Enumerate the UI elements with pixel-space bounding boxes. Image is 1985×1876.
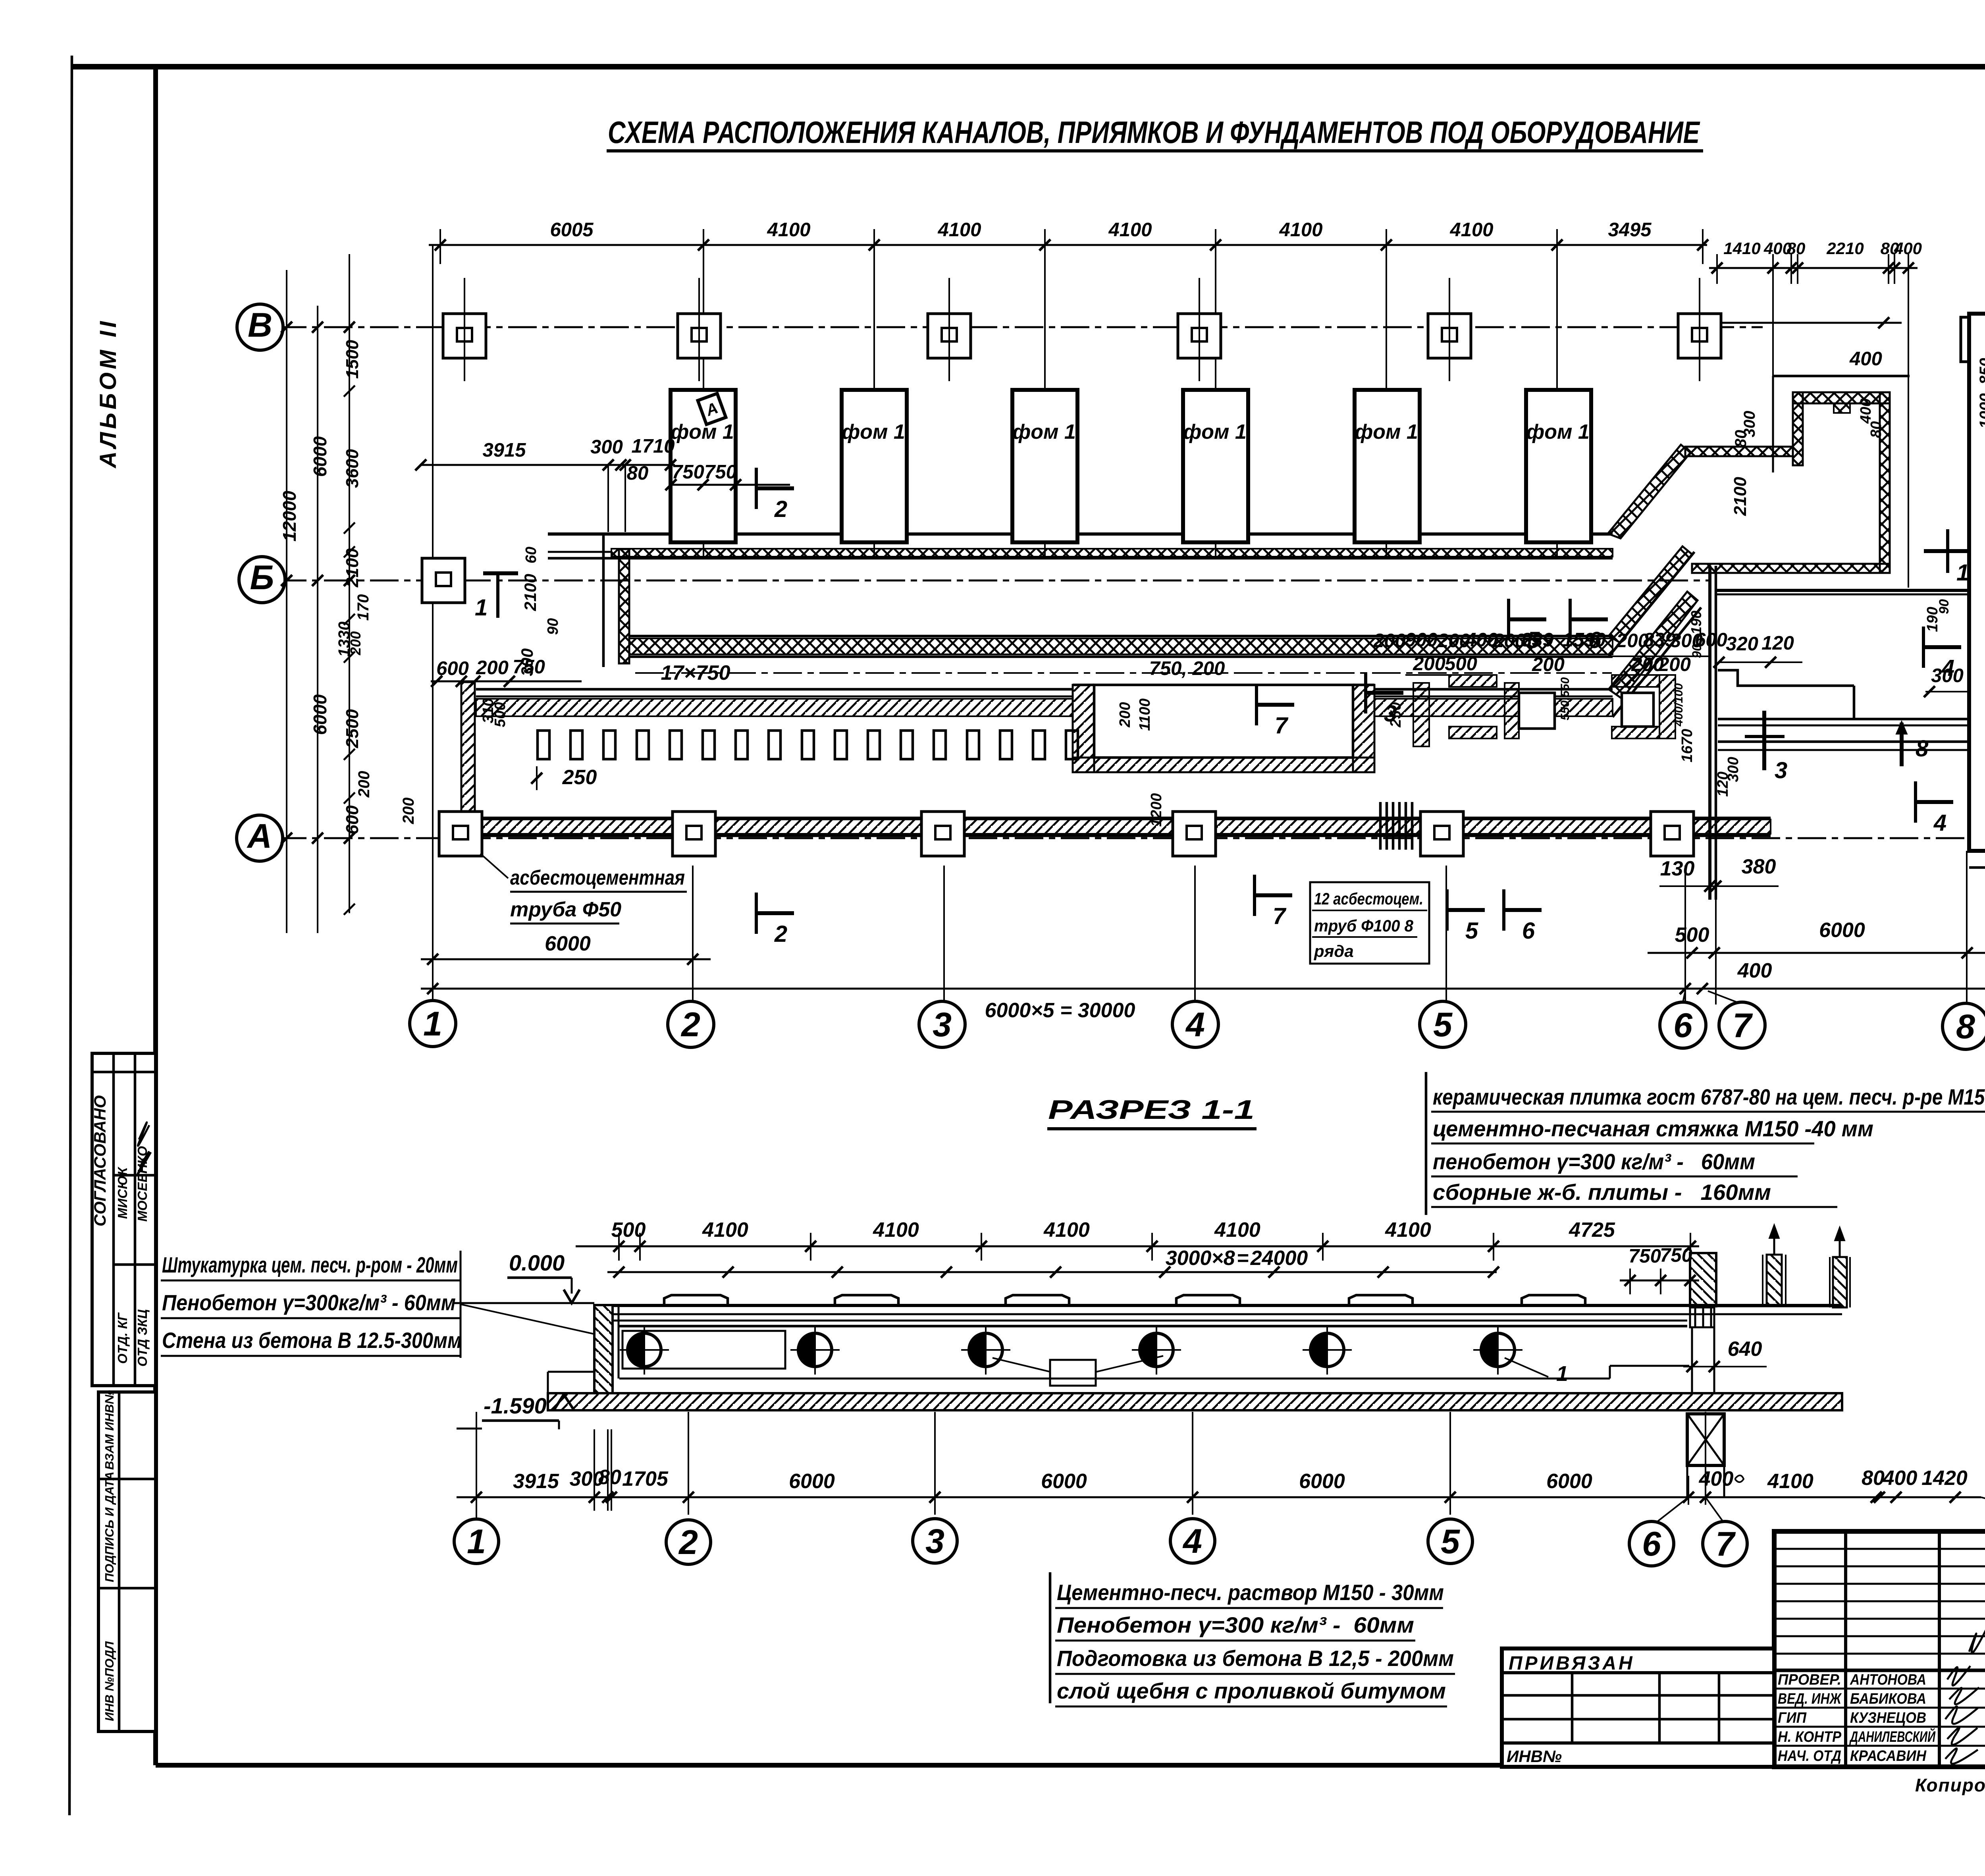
axis В circle: [237, 304, 283, 350]
svg-text:640: 640: [1728, 1338, 1762, 1361]
foundation block ФОМ1 #6: [1526, 390, 1591, 542]
right end column C: [1833, 1257, 1847, 1307]
section flag 7 top: [1257, 684, 1294, 738]
section flag 3 lower right: [1745, 711, 1787, 783]
section axis circle 2: [666, 1520, 711, 1564]
pipe 4: [1140, 1333, 1173, 1367]
pipe 3: [969, 1333, 1002, 1367]
foundation block ФОМ1 #1: [671, 390, 736, 542]
svg-text:Стена из бетона В 12.5-300мм: Стена из бетона В 12.5-300мм: [162, 1328, 462, 1353]
svg-text:6000×5 = 30000: 6000×5 = 30000: [985, 999, 1135, 1022]
column footing on axis В at x=2391: [928, 314, 971, 358]
section top dim row 2: [607, 1271, 1497, 1273]
svg-text:4100: 4100: [1385, 1219, 1431, 1242]
svg-text:4100: 4100: [873, 1219, 919, 1242]
svg-text:2: 2: [680, 1006, 700, 1044]
svg-text:ИНВ№: ИНВ№: [1507, 1747, 1562, 1766]
svg-text:4: 4: [1933, 810, 1946, 836]
chain dim row above pit (left group): [1378, 656, 1711, 657]
text асбестоцементная труба: [480, 854, 508, 878]
pit wall right: [1353, 685, 1374, 772]
verticals below column A: [1691, 1327, 1693, 1393]
svg-text:750: 750: [1660, 1245, 1692, 1266]
section interior bottom line: [619, 1378, 1610, 1380]
label 250 with tick: [536, 766, 538, 790]
svg-text:4: 4: [1185, 1006, 1205, 1044]
inner pit stepped outline: [1718, 670, 1854, 686]
svg-text:80: 80: [1787, 239, 1806, 258]
section flag 2 bottom: [756, 893, 794, 947]
svg-text:0.000: 0.000: [509, 1250, 565, 1275]
plan axis circle 8: [1943, 1003, 1985, 1049]
column footing top right corner: [1961, 317, 1985, 362]
svg-text:850: 850: [1977, 358, 1985, 385]
svg-text:Б: Б: [250, 559, 274, 597]
svg-text:СОГЛАСОВАНО: СОГЛАСОВАНО: [91, 1095, 109, 1226]
svg-text:5: 5: [1433, 1006, 1453, 1044]
right room outer wall: [1969, 314, 1985, 851]
svg-text:3915: 3915: [513, 1470, 559, 1493]
plan axis circle 6: [1660, 1002, 1706, 1048]
svg-text:-1.590: -1.590: [484, 1393, 547, 1418]
svg-text:асбестоцементная: асбестоцементная: [510, 866, 685, 889]
leader lines for circles 6 7: [1683, 991, 1685, 1002]
upper-right wall top band with notch: [1793, 392, 1890, 403]
leader bracket: [460, 1251, 462, 1358]
svg-text:фом 1: фом 1: [1012, 420, 1076, 443]
svg-text:200: 200: [1413, 653, 1445, 675]
svg-text:ПОДПИСЬ И ДАТА: ПОДПИСЬ И ДАТА: [102, 1471, 116, 1582]
svg-text:3: 3: [1775, 758, 1787, 783]
sheet outer edge left: [69, 56, 72, 1815]
svg-text:400: 400: [1894, 239, 1922, 258]
frame bottom: [156, 1763, 1985, 1768]
svg-text:1420: 1420: [1921, 1467, 1968, 1490]
svg-text:1410: 1410: [1723, 239, 1760, 258]
svg-text:839: 839: [1521, 629, 1554, 651]
svg-text:фом 1: фом 1: [671, 420, 734, 443]
svg-text:6000: 6000: [545, 932, 591, 955]
column footing on axis А at x=1748: [673, 812, 715, 856]
svg-text:750: 750: [704, 461, 737, 483]
svg-text:750, 200: 750, 200: [1149, 658, 1225, 679]
svg-text:750: 750: [1628, 1246, 1661, 1267]
svg-text:6: 6: [1673, 1006, 1693, 1045]
right room bottom extra line: [1969, 866, 1985, 869]
svg-text:ВЕД. ИНЖ: ВЕД. ИНЖ: [1778, 1691, 1842, 1707]
svg-text:750: 750: [672, 461, 704, 483]
axis Б dash-dot line: [278, 580, 1711, 582]
equipment pads on slab: [664, 1295, 728, 1305]
svg-text:8: 8: [1916, 736, 1929, 762]
axis А dash-dot line: [278, 837, 1969, 839]
svg-text:Пенобетон γ=300кг/м³ - 60мм: Пенобетон γ=300кг/м³ - 60мм: [162, 1290, 456, 1315]
left table blank rows: [1774, 1548, 1985, 1550]
west wall vertical (upper): [619, 549, 629, 663]
section bottom dim line: [457, 1496, 1981, 1498]
svg-text:ВЗАМ ИНВ№: ВЗАМ ИНВ№: [102, 1390, 116, 1470]
svg-text:3: 3: [933, 1006, 952, 1044]
plan axis circle 5: [1420, 1001, 1466, 1047]
channel north wall: [629, 635, 1613, 638]
dim tick x=2632: [1039, 239, 1050, 251]
left margin stamp ИНВ block: [98, 1390, 156, 1731]
svg-text:1590: 1590: [1562, 629, 1605, 651]
svg-text:750: 750: [513, 656, 545, 678]
svg-text:130: 130: [1660, 857, 1695, 880]
plan axis circle 3: [919, 1001, 965, 1047]
dim tick x=1109: [435, 239, 446, 251]
svg-text:200: 200: [400, 798, 417, 825]
lower-right room west wall: [1708, 566, 1711, 900]
section flags 5 6 top: [1509, 599, 1546, 653]
svg-text:4100: 4100: [937, 219, 981, 241]
svg-text:1: 1: [475, 595, 488, 621]
svg-text:200: 200: [1373, 630, 1406, 652]
left margin stamp СОГЛАСОВАНО: [91, 1053, 156, 1386]
svg-text:Штукатурка цем. песч. р-ром -: Штукатурка цем. песч. р-ром - 20мм: [162, 1252, 458, 1277]
footing on axis Б: [422, 558, 465, 603]
column footing on axis А at x=3632: [1420, 812, 1463, 856]
svg-text:2: 2: [678, 1523, 698, 1562]
svg-text:1000: 1000: [1977, 393, 1985, 429]
pit wall bottom: [1073, 758, 1374, 772]
svg-text:слой щебня с проливкой битумом: слой щебня с проливкой битумом: [1057, 1678, 1446, 1703]
plan axis circle 7: [1719, 1002, 1765, 1048]
section axis circle 6: [1629, 1521, 1674, 1566]
label 1 with leader: [1505, 1358, 1548, 1377]
svg-text:АНТОНОВА: АНТОНОВА: [1850, 1672, 1926, 1688]
svg-text:2: 2: [774, 496, 787, 522]
column footing on axis В at x=3021: [1178, 314, 1221, 358]
svg-text:фом 1: фом 1: [1183, 420, 1247, 443]
svg-text:ГИП: ГИП: [1778, 1710, 1807, 1726]
svg-text:200: 200: [347, 631, 364, 656]
pit walls (left): [1073, 685, 1094, 772]
axis А circle: [237, 815, 283, 861]
svg-text:Н. КОНТР: Н. КОНТР: [1778, 1729, 1842, 1745]
svg-text:2210: 2210: [1826, 239, 1864, 258]
svg-text:цементно-песчаная стяжка М150: цементно-песчаная стяжка М150 -40 мм: [1433, 1116, 1873, 1141]
dim line 3915/300/1710 row: [421, 464, 675, 466]
upper-right wall left band: [1793, 392, 1803, 465]
svg-text:80: 80: [598, 1466, 621, 1489]
svg-text:7: 7: [1715, 1525, 1736, 1563]
foundation block ФОМ1 #4: [1183, 390, 1248, 542]
step under left wall: [548, 1371, 594, 1373]
west wall vertical (lower): [461, 682, 475, 818]
dim tick x=3062: [1210, 239, 1221, 251]
right end hatched column A: [1690, 1253, 1716, 1306]
svg-text:120: 120: [1761, 632, 1794, 654]
svg-text:4725: 4725: [1569, 1219, 1615, 1242]
svg-text:200: 200: [476, 657, 509, 679]
plan bottom dim row 1 (y 2330): [421, 958, 711, 960]
right end column B: [1767, 1255, 1782, 1306]
section axis circle 5: [1428, 1519, 1472, 1564]
svg-text:300: 300: [1931, 665, 1964, 686]
svg-text:2100: 2100: [343, 548, 362, 588]
title block outer box: [1774, 1531, 1985, 1767]
svg-text:1670: 1670: [1679, 729, 1696, 763]
crossed box below: [1687, 1414, 1724, 1465]
svg-text:3000×8 = 24000: 3000×8 = 24000: [1166, 1247, 1308, 1270]
foundation strip: [548, 1393, 1842, 1410]
svg-text:2: 2: [774, 921, 787, 947]
svg-text:5: 5: [1441, 1523, 1460, 1561]
svg-text:4100: 4100: [1043, 1219, 1090, 1242]
frame left: [153, 67, 158, 1765]
svg-text:500: 500: [1445, 653, 1477, 675]
section axis circle 1: [454, 1519, 499, 1564]
left signature table columns: [1844, 1531, 1847, 1767]
svg-text:РАЗРЕЗ 1-1: РАЗРЕЗ 1-1: [1048, 1095, 1255, 1125]
dim tick x=1772: [698, 239, 709, 251]
svg-text:Цементно-песч. раствор М150 -: Цементно-песч. раствор М150 - 30мм: [1057, 1580, 1444, 1605]
svg-text:7: 7: [1275, 713, 1289, 738]
section flag 3 top: [1366, 672, 1403, 727]
svg-text:900: 900: [1405, 629, 1438, 651]
floor composition text block: [1425, 1072, 1428, 1215]
axis В dash-dot line: [278, 326, 1763, 328]
svg-text:1: 1: [423, 1005, 442, 1043]
axis construction verticals: [703, 245, 704, 556]
12 asbestos pipes crossing wall: [1379, 802, 1382, 850]
svg-text:90: 90: [545, 618, 561, 635]
svg-text:НАЧ. ОТД: НАЧ. ОТД: [1778, 1748, 1841, 1764]
svg-text:1500: 1500: [343, 340, 362, 379]
svg-text:4: 4: [1182, 1522, 1202, 1560]
pipe 1: [628, 1333, 661, 1367]
svg-text:6000: 6000: [310, 694, 330, 735]
room interior channel lines: [1718, 718, 1968, 721]
hatched inner pits right of big pit: [1413, 683, 1429, 746]
dim tick x=4289: [1697, 239, 1708, 251]
svg-text:ПРИВЯЗАН: ПРИВЯЗАН: [1509, 1653, 1635, 1674]
section top dim row 1: [576, 1246, 1699, 1247]
boxed text 12 асбестоцем труб: [1310, 882, 1429, 964]
wall band along axis А: [476, 817, 1771, 819]
column footing on axis В at x=3651: [1428, 314, 1471, 358]
svg-text:КУЗНЕЦОВ: КУЗНЕЦОВ: [1850, 1710, 1926, 1726]
svg-text:Пенобетон γ=300 кг/м³ - 60мм: Пенобетон γ=300 кг/м³ - 60мм: [1057, 1612, 1414, 1637]
diagonal channel band (upper exterior): [1608, 445, 1690, 538]
svg-text:АЛЬБОМ II: АЛЬБОМ II: [95, 318, 121, 469]
column footing on axis А at x=2375: [921, 812, 964, 856]
svg-text:300: 300: [590, 436, 623, 458]
svg-text:400: 400: [1883, 1467, 1918, 1490]
bottom floor composition text block: [1049, 1572, 1052, 1703]
name rows: [1774, 1669, 1985, 1671]
anchor slot row (17 rect pockets): [538, 731, 549, 759]
dim tick x=2202: [869, 239, 880, 251]
svg-text:6000: 6000: [1299, 1470, 1345, 1493]
svg-text:500: 500: [1675, 924, 1709, 947]
svg-text:600: 600: [343, 805, 362, 835]
svg-text:4100: 4100: [1108, 219, 1152, 241]
diagonal channel band south: [1609, 592, 1698, 699]
left dim chain verticals: [286, 270, 287, 933]
svg-text:1100: 1100: [1137, 698, 1153, 731]
svg-text:6: 6: [1642, 1525, 1661, 1563]
svg-text:250: 250: [562, 766, 597, 789]
dim tick x=3492: [1381, 239, 1392, 251]
svg-text:ОТД ЗКЦ: ОТД ЗКЦ: [135, 1309, 150, 1367]
привязан table: [1502, 1648, 1774, 1767]
svg-text:труб Ф100 8: труб Ф100 8: [1314, 916, 1414, 935]
signatures scribbles: [1945, 1666, 1979, 1764]
svg-text:фом 1: фом 1: [842, 420, 905, 443]
svg-text:3915: 3915: [482, 440, 526, 461]
svg-text:А: А: [247, 817, 272, 855]
plan axis circle 1: [410, 1001, 456, 1047]
svg-text:17×750: 17×750: [661, 661, 730, 684]
section axis circle 7: [1703, 1521, 1747, 1566]
svg-text:6000: 6000: [789, 1470, 835, 1493]
horizontal band to upper right structure: [1685, 447, 1793, 456]
svg-text:ДАНИЛЕВСКИЙ: ДАНИЛЕВСКИЙ: [1849, 1728, 1936, 1745]
svg-text:4100: 4100: [767, 219, 810, 241]
svg-text:400: 400: [1737, 959, 1772, 982]
svg-text:300: 300: [1741, 411, 1758, 438]
svg-text:550,550: 550,550: [1559, 677, 1572, 720]
plan axis circle 4: [1172, 1001, 1218, 1047]
upper-right wall right band: [1880, 392, 1890, 573]
svg-text:320: 320: [1726, 633, 1758, 655]
svg-text:1710: 1710: [631, 436, 675, 457]
title underline: [607, 149, 1703, 152]
section flag 2 (top): [756, 468, 794, 522]
svg-text:1705: 1705: [622, 1467, 669, 1490]
svg-text:500: 500: [492, 702, 509, 727]
section slab lines: [613, 1304, 1842, 1307]
svg-text:2100: 2100: [1731, 477, 1750, 516]
section flag 4 upper: [1923, 627, 1961, 681]
svg-text:400: 400: [1849, 348, 1882, 370]
section flag 7 bottom: [1255, 875, 1292, 929]
svg-text:12000: 12000: [279, 491, 300, 542]
column footing on axis А at x=3008: [1173, 812, 1216, 856]
svg-text:60: 60: [523, 547, 540, 563]
upper-right pit outline: [1773, 375, 1910, 378]
channel south wall right part: [1374, 688, 1613, 691]
pipe 5: [1310, 1333, 1344, 1367]
svg-text:пенобетон γ=300 кг/м³ - 60мм: пенобетон γ=300 кг/м³ - 60мм: [1433, 1149, 1755, 1174]
svg-text:БАБИКОВА: БАБИКОВА: [1850, 1691, 1926, 1707]
svg-text:фом 1: фом 1: [1526, 420, 1590, 443]
frame top: [71, 64, 1985, 69]
svg-text:4100: 4100: [1767, 1470, 1813, 1493]
svg-text:В: В: [248, 306, 272, 344]
svg-text:3: 3: [925, 1522, 944, 1560]
svg-text:6: 6: [1522, 918, 1535, 944]
column footing on axis А at x=4212: [1651, 812, 1694, 856]
diagonal channel band north: [1609, 546, 1692, 642]
plan bottom dim row 2 (y 2496): [421, 988, 1985, 990]
svg-text:ПРОВЕР.: ПРОВЕР.: [1778, 1672, 1841, 1688]
svg-text:сборные ж-б. плиты - 160мм: сборные ж-б. плиты - 160мм: [1433, 1180, 1771, 1205]
svg-text:4100: 4100: [702, 1219, 748, 1242]
svg-text:250: 250: [1388, 702, 1404, 727]
svg-text:фом 1: фом 1: [1355, 420, 1418, 443]
svg-text:7: 7: [1733, 1006, 1753, 1045]
svg-text:2500: 2500: [343, 709, 362, 748]
section flag 4 lower: [1916, 781, 1953, 836]
svg-text:ряда: ряда: [1314, 942, 1354, 960]
svg-text:ОТД. КГ: ОТД. КГ: [115, 1312, 130, 1364]
lower-right room top wall: [1716, 589, 1968, 592]
svg-text:5: 5: [1465, 918, 1478, 944]
svg-text:170: 170: [355, 594, 372, 621]
section axis extension verticals: [476, 1412, 477, 1515]
section flag 1 (left): [475, 573, 518, 621]
axis vertical lines to circles: [432, 866, 434, 1001]
svg-text:2100: 2100: [521, 574, 540, 611]
svg-text:400: 400: [1858, 398, 1874, 424]
column footing on axis В at x=1761: [678, 314, 721, 358]
svg-text:6000: 6000: [1546, 1470, 1592, 1493]
svg-text:ИНВ №ПОДЛ: ИНВ №ПОДЛ: [102, 1641, 116, 1721]
svg-text:керамическая плитка гост 6787-: керамическая плитка гост 6787-80 на цем.…: [1433, 1084, 1985, 1109]
pipe 2: [798, 1333, 832, 1367]
svg-text:12 асбестоцем.: 12 асбестоцем.: [1314, 889, 1423, 908]
foundation block ФОМ1 #2: [842, 390, 907, 542]
plan axis circle 2: [668, 1001, 714, 1047]
section flags 5 6 bottom: [1447, 889, 1485, 944]
svg-text:6005: 6005: [550, 219, 594, 241]
axis Б circle: [239, 557, 285, 603]
svg-text:КРАСАВИН: КРАСАВИН: [1850, 1748, 1927, 1764]
svg-text:6000: 6000: [1041, 1470, 1087, 1493]
section left wall: [594, 1305, 613, 1393]
svg-text:300: 300: [1725, 757, 1742, 782]
svg-text:труба Ф50: труба Ф50: [510, 898, 621, 921]
svg-text:90: 90: [1937, 599, 1952, 614]
channel south wall left part: [476, 688, 1073, 691]
svg-text:4100: 4100: [1279, 219, 1322, 241]
pipe sleeve box at pipe1: [622, 1331, 785, 1369]
svg-text:3495: 3495: [1608, 219, 1652, 241]
svg-text:380: 380: [1742, 855, 1776, 878]
svg-text:4100: 4100: [1449, 219, 1493, 241]
svg-text:80: 80: [627, 463, 649, 484]
svg-text:4100: 4100: [1214, 1219, 1260, 1242]
foundation block ФОМ1 #5: [1355, 390, 1420, 542]
section flag 8 arrow up: [1896, 721, 1929, 766]
svg-text:1: 1: [1556, 1362, 1568, 1386]
svg-text:МИСЮК: МИСЮК: [115, 1166, 130, 1219]
column footing on axis В at x=1170: [443, 314, 486, 358]
section axis circle 3: [913, 1519, 957, 1563]
diamond marker А on block 1: [698, 393, 726, 424]
leader box mid: [1050, 1360, 1096, 1386]
svg-text:200: 200: [1117, 702, 1133, 727]
foundation block ФОМ1 #3: [1012, 390, 1077, 542]
svg-text:200: 200: [355, 771, 373, 798]
svg-text:200: 200: [1658, 654, 1691, 675]
column footing on axis В at x=4281: [1678, 314, 1721, 358]
right top dimension row 1410 400 80 2210 80 400: [1709, 267, 1918, 269]
svg-text:80: 80: [1862, 1467, 1885, 1490]
pipe 6: [1481, 1333, 1515, 1367]
channel centerline: [635, 672, 1612, 674]
svg-text:7: 7: [1273, 903, 1287, 929]
svg-text:400/100: 400/100: [1672, 683, 1685, 727]
svg-text:400: 400: [1699, 1467, 1734, 1490]
bottom band of upper right structure: [1692, 564, 1890, 573]
section axis circle 4: [1170, 1519, 1215, 1563]
svg-text:8: 8: [1956, 1008, 1975, 1046]
